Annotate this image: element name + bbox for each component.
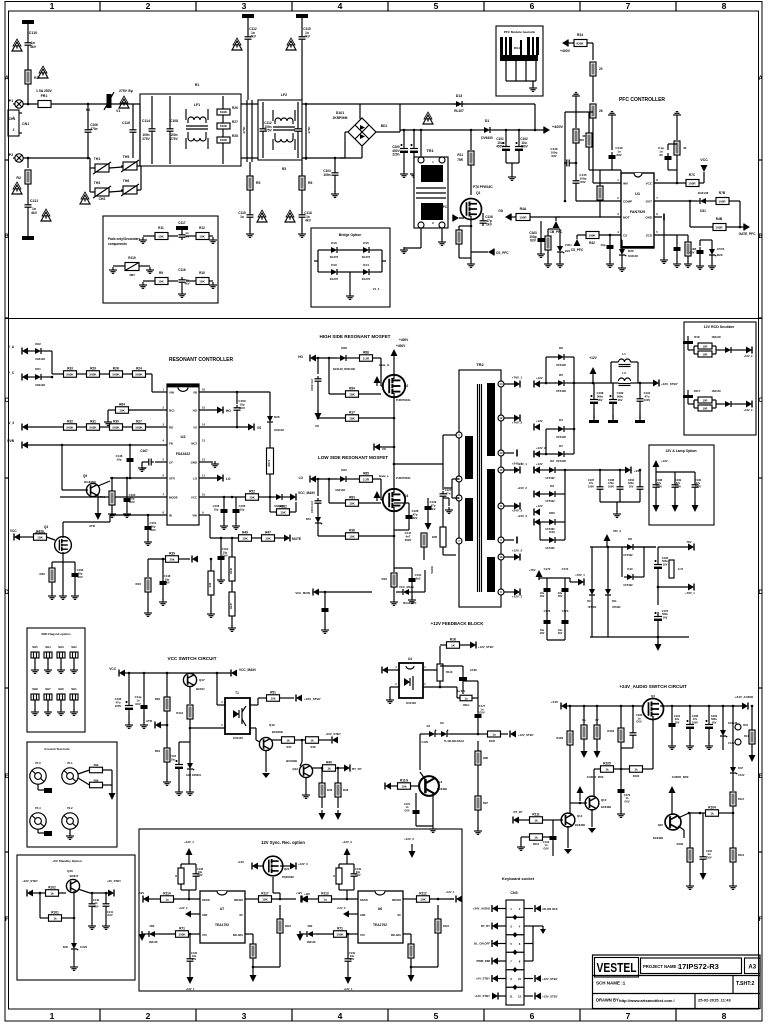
resistor R101 <box>49 915 62 922</box>
wire to snub diode <box>716 403 722 405</box>
capacitor C148c body <box>160 578 167 588</box>
svg-text:PL4: PL4 <box>35 806 41 810</box>
svg-text:R117: R117 <box>261 891 269 895</box>
frame tick bottom <box>99 1009 101 1021</box>
wire comp tap <box>565 111 593 113</box>
frame tick left <box>5 477 9 479</box>
wire C102 top <box>518 130 520 142</box>
wire R119 out <box>139 265 150 267</box>
junction <box>317 357 320 360</box>
svg-text:R112: R112 <box>419 891 427 895</box>
svg-text:R114: R114 <box>163 891 171 895</box>
svg-text:10K: 10K <box>262 898 268 902</box>
resistor R43b <box>34 534 47 541</box>
net arrow down R46 <box>319 813 326 820</box>
resistor R111 <box>530 817 543 824</box>
svg-text:D63: D63 <box>150 924 155 928</box>
wire D40z gnd <box>73 952 75 964</box>
wire Q14 collector <box>569 803 571 814</box>
resistor R106 body <box>567 731 573 745</box>
wire C169 gnd <box>612 408 614 419</box>
wire PL1 to R98 <box>78 778 90 785</box>
wire snub in2 <box>694 407 698 409</box>
inductor L1 <box>619 359 631 367</box>
svg-text:U4: U4 <box>408 657 412 661</box>
net arrow C129 gnd <box>425 523 432 530</box>
net flag +12V_2 in <box>534 451 540 458</box>
svg-text:AUDIO_R60: AUDIO_R60 <box>587 775 604 779</box>
svg-text:P2: P2 <box>9 153 13 157</box>
wire R33v top <box>166 673 168 697</box>
svg-text:63V: 63V <box>530 239 537 243</box>
junction <box>87 103 90 106</box>
net arrow VCC <box>701 165 708 172</box>
wire 400V top bus <box>360 103 535 105</box>
wire D40 branch <box>539 522 541 540</box>
resistor R64 <box>116 407 129 414</box>
wire CN3 left <box>498 960 506 962</box>
svg-text:R33: R33 <box>67 366 73 370</box>
wire TL left <box>420 733 426 735</box>
wire gnd pin <box>191 913 200 915</box>
resistor R1K <box>447 642 460 649</box>
cap C117 plate <box>176 226 188 230</box>
svg-text:R171: R171 <box>267 459 271 466</box>
net flag +12V_3 q20 <box>290 863 296 870</box>
wire T1 pin2 <box>250 727 256 729</box>
warning triangle <box>38 66 48 78</box>
wire C200 gnd <box>403 157 405 172</box>
svg-text:49: 49 <box>683 146 687 150</box>
wire lamp cap dn <box>694 490 696 505</box>
junction <box>188 898 191 901</box>
resistor R105 <box>601 766 614 773</box>
wire CN1 pin1 <box>19 112 22 114</box>
svg-text:6: 6 <box>530 1 535 11</box>
resistor <box>630 766 643 773</box>
wire C153 down <box>317 506 319 514</box>
wire R39 down <box>147 559 149 577</box>
wire to bridge top <box>302 103 360 105</box>
svg-text:CH1: CH1 <box>9 117 16 121</box>
diode D40z body <box>71 940 78 952</box>
frame tick top <box>291 2 293 12</box>
wire source join <box>459 257 471 259</box>
wire TR1 top to node <box>420 130 422 157</box>
resistor R10 <box>196 278 209 285</box>
wire R94 branch <box>328 358 330 394</box>
wire lamp cap top <box>694 472 696 482</box>
wire chain2 to pin3 <box>146 426 168 428</box>
ground T snubber <box>687 390 689 395</box>
wire bo left <box>317 250 319 272</box>
wire R100b out <box>501 733 509 735</box>
wire C182 top <box>552 820 554 833</box>
wire D24 top <box>559 235 561 243</box>
title block size cell <box>745 958 761 974</box>
svg-text:10K: 10K <box>37 536 43 540</box>
wire gate L vert <box>380 479 382 500</box>
junction <box>189 933 192 936</box>
svg-text:G0V: G0V <box>479 711 485 715</box>
wire audio rail right <box>660 705 742 707</box>
wire R144 down <box>189 719 191 742</box>
diode D16 body <box>328 247 340 253</box>
svg-text:R48: R48 <box>343 788 349 792</box>
resistor R11G <box>398 783 411 790</box>
ground <box>556 261 564 267</box>
svg-text:Q10: Q10 <box>269 723 275 727</box>
junction <box>619 469 622 472</box>
svg-text:10K: 10K <box>242 537 248 541</box>
svg-text:BC846B: BC846B <box>286 759 297 763</box>
svg-text:V1_2: V1_2 <box>373 287 380 291</box>
pad SH4 <box>44 652 52 658</box>
svg-text:16V: 16V <box>558 631 563 635</box>
ground <box>139 237 147 243</box>
pad SH8 <box>31 694 39 700</box>
svg-text:6: 6 <box>656 212 658 216</box>
svg-text:TEA1792: TEA1792 <box>373 923 387 927</box>
wire flag in <box>307 898 319 900</box>
svg-text:UF5402: UF5402 <box>545 546 555 550</box>
transistor Q14a body <box>561 813 575 827</box>
pad P14b <box>735 739 741 745</box>
svg-text:R33: R33 <box>155 697 161 701</box>
wire D30 gnd <box>621 258 623 266</box>
wire R34 out <box>587 42 593 44</box>
wire R37 join <box>589 169 600 171</box>
svg-text:G3V: G3V <box>355 874 360 877</box>
ground <box>346 293 354 299</box>
svg-text:1N4148: 1N4148 <box>698 191 709 195</box>
wire C151 gnd <box>147 533 149 540</box>
wire bo right stub <box>382 260 386 262</box>
TR1 pin top-left <box>418 157 424 163</box>
wire D22 down <box>51 351 53 374</box>
wire MOT pin <box>600 216 621 218</box>
svg-text:R11: R11 <box>457 153 463 157</box>
resistor R16r body <box>749 730 755 744</box>
wire T1 pin1 <box>250 704 258 706</box>
junction <box>393 446 396 449</box>
svg-text:D62: D62 <box>308 924 313 928</box>
capacitor C145 <box>573 178 580 186</box>
svg-text:Q14: Q14 <box>577 814 583 818</box>
wire to R132 <box>270 511 277 513</box>
wire CN3 left <box>498 908 506 910</box>
junction <box>545 382 548 385</box>
capacitor C170 body <box>544 585 551 595</box>
net flag U6 in <box>301 896 307 903</box>
svg-text:5: 5 <box>434 1 439 11</box>
svg-text:PL3: PL3 <box>35 761 41 765</box>
wire into U1 top <box>620 170 622 173</box>
wire Q16 collector <box>678 813 689 818</box>
svg-text:RELADG: RELADG <box>391 934 401 937</box>
resistor R48 body <box>685 242 691 256</box>
ground <box>386 697 394 703</box>
wire Q17 base down <box>189 686 191 704</box>
svg-text:T.SHT:2: T.SHT:2 <box>736 981 755 987</box>
svg-text:560K: 560K <box>89 373 97 377</box>
svg-text:Q3: Q3 <box>404 494 408 498</box>
ground <box>331 191 339 197</box>
wire D9 dn <box>591 598 593 637</box>
svg-text:3: 3 <box>395 683 397 686</box>
wire C181 dn <box>702 862 704 870</box>
junction <box>657 586 660 589</box>
wire pads2 mid <box>168 280 178 282</box>
svg-text:6: 6 <box>163 474 165 478</box>
capacitor C209 <box>705 720 713 733</box>
wire R118 top <box>437 905 439 919</box>
junction <box>236 426 239 429</box>
wire C163m top <box>126 478 128 495</box>
svg-text:4kV: 4kV <box>184 235 189 239</box>
junction <box>732 812 735 815</box>
wire lamp cap top <box>674 472 676 482</box>
wire OUT down <box>689 201 691 227</box>
svg-text:R117: R117 <box>694 389 701 393</box>
wire C118 gnd <box>301 220 303 232</box>
svg-text:VS: VS <box>193 425 197 429</box>
net arrow D63 left <box>139 934 146 941</box>
ground <box>88 923 96 929</box>
wire source sense <box>393 560 395 572</box>
wire VW down <box>209 515 211 538</box>
svg-text:D60: D60 <box>549 511 555 515</box>
wire mains N line <box>23 157 90 159</box>
wire gnd down <box>663 217 665 225</box>
svg-text:+24V_1: +24V_1 <box>517 462 527 466</box>
PFC module heatsink box <box>496 26 543 96</box>
capacitor C164 <box>175 760 183 773</box>
wire cap dn <box>195 879 197 890</box>
svg-text:+12V_1: +12V_1 <box>446 891 455 894</box>
resistor R40v <box>208 571 214 595</box>
svg-text:R100: R100 <box>489 739 496 743</box>
wire bridge out right <box>376 131 400 133</box>
wire Q1 drain feed <box>470 130 472 150</box>
wire to Q12 base <box>301 740 303 762</box>
wire R94 out <box>359 393 382 395</box>
wire cap join <box>506 162 519 164</box>
svg-text:+24V_AUDIO: +24V_AUDIO <box>735 695 754 699</box>
svg-text:4: 4 <box>338 1 343 11</box>
svg-text:NC2: NC2 <box>191 441 197 445</box>
svg-text:100K: 100K <box>336 933 344 937</box>
ground <box>31 709 39 715</box>
wire R16r dn <box>751 744 753 752</box>
svg-text:100n: 100n <box>323 173 330 177</box>
diode D11 body <box>605 586 611 598</box>
svg-text:+24V_2: +24V_2 <box>512 509 523 513</box>
wire snub gnd <box>687 341 689 350</box>
resistor <box>282 737 295 744</box>
wire 76V arrow <box>538 578 540 580</box>
TR2 secondary pin 16 <box>498 554 504 560</box>
resistor R143 <box>437 664 443 681</box>
svg-text:R34: R34 <box>577 33 583 37</box>
wire R132 left <box>269 497 271 512</box>
svg-text:R71: R71 <box>337 926 343 930</box>
svg-text:R16: R16 <box>743 723 748 727</box>
ground <box>178 291 186 297</box>
wire pad down <box>73 658 75 668</box>
junction <box>321 767 324 770</box>
svg-text:4kV: 4kV <box>31 211 38 215</box>
wire Y-cap 2 down <box>301 42 303 100</box>
resistor R33 <box>64 371 77 378</box>
pad SH2 <box>70 652 78 658</box>
svg-text:450V: 450V <box>520 145 528 149</box>
wire 24V gnd <box>616 502 618 512</box>
wire cap bottom <box>564 627 566 640</box>
resistor R51 <box>267 695 280 702</box>
junction <box>639 382 642 385</box>
transistor Q16 body <box>665 814 681 830</box>
junction <box>607 546 610 549</box>
svg-text:R110: R110 <box>738 853 745 857</box>
wire C160b join <box>63 561 75 563</box>
wire C147 gnd <box>609 252 611 262</box>
capacitor C191 body <box>637 396 644 404</box>
svg-text:UF5402: UF5402 <box>545 499 555 503</box>
svg-text:R4B: R4B <box>716 217 723 221</box>
wire R71 to pin <box>347 933 359 935</box>
wire reladg join <box>253 966 280 968</box>
diode D26 body <box>267 413 273 425</box>
svg-text:G0V: G0V <box>135 702 141 706</box>
diode snubber body <box>722 347 734 353</box>
capacitor C17b body <box>562 617 569 627</box>
diode D28 body <box>337 355 349 361</box>
svg-text:+12V_2: +12V_2 <box>743 354 753 358</box>
capacitor C152 body <box>315 376 322 384</box>
svg-text:PROJECT NAME :: PROJECT NAME : <box>643 964 679 969</box>
svg-text:DRAIN: DRAIN <box>202 899 210 902</box>
svg-text:D4: D4 <box>427 724 431 728</box>
svg-text:470n: 470n <box>90 127 97 131</box>
net flag U4 pin4 <box>382 667 388 674</box>
wire CS pin <box>600 234 621 236</box>
wire TR2 pin5 <box>452 497 459 499</box>
junction <box>51 376 54 379</box>
svg-text:1 5A 250V: 1 5A 250V <box>36 89 53 93</box>
svg-text:1k: 1k <box>53 917 57 921</box>
wire C145 down <box>575 186 577 201</box>
wire bo right <box>381 250 383 272</box>
wire R41p top <box>547 229 549 236</box>
svg-text:11: 11 <box>202 474 205 478</box>
wire cap top <box>353 864 355 871</box>
svg-text:275V: 275V <box>170 137 178 141</box>
TR2 secondary pin 9 <box>498 537 504 543</box>
transistor Q20 body <box>263 856 283 876</box>
wire CN3 gnd bus <box>532 926 534 961</box>
svg-text:16: 16 <box>202 388 205 392</box>
inductor L3 <box>619 378 631 386</box>
junction <box>393 535 396 538</box>
wire reladg r top <box>410 934 412 944</box>
wire C194 dn <box>671 730 673 744</box>
wire chain end <box>146 373 153 375</box>
wire R48 top <box>687 235 689 242</box>
svg-text:R48: R48 <box>311 745 316 749</box>
svg-text:R7: R7 <box>489 571 493 575</box>
svg-text:T1: T1 <box>235 691 239 695</box>
connector P2 <box>13 154 23 162</box>
svg-text:BC846B: BC846B <box>84 480 96 484</box>
resistor R85 <box>360 476 373 483</box>
wire UVB to pin4 <box>28 444 167 446</box>
ground <box>57 709 65 715</box>
svg-text:F: F <box>5 917 9 923</box>
wire 12V rail 1 <box>540 382 556 384</box>
TR1 pin top-right <box>439 157 445 163</box>
wire D26 down <box>269 425 271 448</box>
wire CN3 gnd stub <box>533 925 540 927</box>
capacitor C187 body <box>597 484 604 492</box>
wire chain <box>77 373 87 375</box>
wire C164b dn <box>324 615 326 628</box>
wire R6 top <box>301 160 303 176</box>
wire C149 gnd <box>699 257 701 264</box>
svg-text:VS: VS <box>257 426 261 430</box>
wire CF pin <box>155 461 167 463</box>
wire U4 pin1 out <box>423 669 440 671</box>
svg-text:TH6: TH6 <box>123 179 130 183</box>
svg-text:+12V_: +12V_ <box>536 504 545 508</box>
wire snub diode out <box>734 403 746 405</box>
svg-text:4kV: 4kV <box>250 35 257 39</box>
svg-text:7: 7 <box>163 493 165 497</box>
wire divider down <box>592 118 594 170</box>
svg-text:100V: 100V <box>644 398 651 402</box>
resistor R32 <box>64 424 77 431</box>
net flag V_3 <box>22 424 28 431</box>
wire TL431 out <box>450 733 478 735</box>
wire L3 in <box>611 382 619 384</box>
net flag CN3 RT_RY <box>492 923 498 930</box>
wire 24V in 2 <box>540 493 546 495</box>
svg-text:PFC CONTROLLER: PFC CONTROLLER <box>619 97 665 103</box>
capacitor C174 body <box>562 585 569 595</box>
TR1 pin bottom-right <box>439 222 445 228</box>
wire to stby arrow <box>638 382 653 384</box>
wire R86 out <box>373 357 382 359</box>
wire reladg out <box>245 933 253 935</box>
svg-text:Keyboard socket: Keyboard socket <box>502 876 535 881</box>
svg-text:R2: R2 <box>16 176 21 180</box>
svg-text:E: E <box>758 774 762 780</box>
wire C102 bot <box>518 155 520 163</box>
svg-text:UF5402: UF5402 <box>545 476 555 480</box>
wire R118 dn <box>437 933 439 967</box>
svg-text:2: 2 <box>146 1 151 11</box>
wire C160b top <box>74 562 76 570</box>
junction <box>162 558 165 561</box>
wire cap dn <box>639 492 641 502</box>
wire C116 bottom <box>132 135 134 158</box>
wire L3 out <box>631 382 639 384</box>
svg-text:C167: C167 <box>140 449 148 453</box>
wire C164b top <box>324 592 326 605</box>
wire R64 to pin2 <box>129 409 167 411</box>
wire bo2 <box>340 249 360 251</box>
wire R17 out <box>359 417 395 419</box>
